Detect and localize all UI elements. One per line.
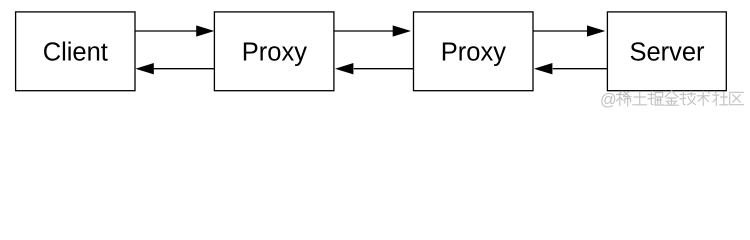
- arrow right 3 (Proxy to Server): [533, 25, 605, 36]
- box Server: [607, 12, 726, 91]
- 稀: [617, 92, 632, 107]
- 技: [680, 91, 696, 105]
- 金: [665, 91, 678, 105]
- 社: [713, 92, 728, 106]
- box Proxy 2: [414, 12, 534, 91]
- watermark @稀土掘金技术社区 (vector strokes, light gray): [600, 91, 744, 109]
- arrow left 2 (Proxy to Proxy): [335, 63, 414, 74]
- box Proxy 1: [214, 12, 334, 91]
- box Client: [16, 12, 135, 91]
- arrow left 1 (Proxy to Client): [135, 63, 214, 74]
- 土: [633, 92, 647, 105]
- 区: [730, 92, 744, 104]
- svg-text:Client: Client: [43, 38, 108, 66]
- svg-text:Proxy: Proxy: [242, 38, 307, 66]
- arrow right 2 (Proxy to Proxy): [334, 25, 411, 36]
- 掘: [648, 92, 664, 106]
- svg-text:@: @: [600, 91, 617, 109]
- arrow right 1 (Client to Proxy): [135, 25, 214, 36]
- svg-text:Proxy: Proxy: [441, 38, 506, 66]
- 术: [697, 91, 710, 105]
- arrow left 3 (Server to Proxy): [534, 63, 608, 74]
- svg-text:Server: Server: [629, 38, 705, 66]
